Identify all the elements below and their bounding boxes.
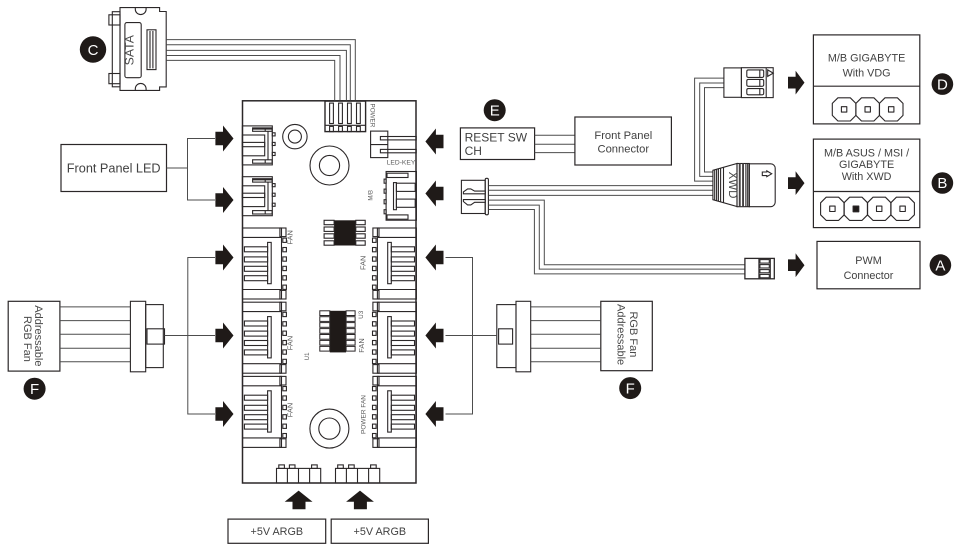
right ARGB plug: [497, 301, 531, 372]
svg-text:SATA: SATA: [123, 34, 137, 65]
svg-text:POWER FAN: POWER FAN: [360, 395, 367, 434]
FAN header L1: [243, 228, 287, 299]
mounting hole big top: [310, 146, 349, 185]
wire SATA to POWER pin3: [166, 50, 346, 101]
M/B header: [384, 172, 416, 221]
svg-text:LED-KEY: LED-KEY: [387, 159, 416, 166]
arrow to FAN L2: [215, 323, 233, 349]
+5V ARGB connector 2: [336, 465, 380, 483]
arrow to VDG box: [788, 71, 805, 95]
label F right: [619, 377, 641, 399]
label D: [932, 73, 954, 95]
XWD connector: [713, 164, 775, 207]
svg-text:XWD: XWD: [726, 172, 738, 199]
wire SATA to POWER pin5: [166, 60, 335, 101]
svg-text:+5V ARGB: +5V ARGB: [354, 526, 407, 538]
FAN header R2: [373, 302, 417, 373]
arrow to J1: [215, 126, 233, 152]
front panel LED header J1: [242, 126, 275, 165]
wires right fan to plug: [531, 307, 601, 362]
svg-text:U1: U1: [304, 352, 311, 361]
XWD pin octagons: [821, 197, 915, 220]
label A: [930, 254, 952, 276]
arrow to J2: [215, 187, 233, 213]
FAN header L3: [243, 376, 287, 447]
wires RESET to FPC: [535, 135, 575, 152]
left ARGB plug: [130, 301, 164, 372]
svg-text:RGB Fan: RGB Fan: [21, 316, 33, 362]
M/B plug: [461, 178, 488, 215]
svg-text:FAN: FAN: [285, 403, 294, 417]
box +5V ARGB 2: [331, 519, 428, 543]
LED-KEY header: [371, 131, 417, 158]
label F left: [24, 378, 46, 400]
hub PCB outline: [243, 101, 417, 483]
svg-text:GIGABYTE: GIGABYTE: [839, 159, 894, 171]
FAN header L2: [243, 302, 287, 373]
svg-text:With XWD: With XWD: [842, 171, 892, 183]
arrow up ARGB 1: [285, 491, 313, 510]
VDG connector: [724, 68, 773, 98]
svg-text:Front Panel LED: Front Panel LED: [67, 162, 161, 176]
bracket front panel LED: [167, 167, 188, 169]
svg-text:Connector: Connector: [844, 270, 894, 282]
svg-text:M/B ASUS / MSI /: M/B ASUS / MSI /: [824, 147, 909, 159]
FAN header R3 (power fan): [373, 376, 417, 447]
arrow to PWM box: [788, 253, 805, 277]
svg-text:Front Panel: Front Panel: [594, 130, 652, 142]
label C: [80, 36, 106, 62]
mounting hole big bottom: [310, 409, 349, 448]
svg-text:U3: U3: [358, 310, 365, 319]
svg-text:Addressable: Addressable: [614, 304, 626, 365]
wire SATA to POWER pin2: [166, 45, 350, 102]
wire SATA to POWER pin1: [166, 40, 355, 102]
arrow to FAN R1: [425, 245, 443, 271]
svg-text:RGB Fan: RGB Fan: [627, 312, 639, 358]
box Front Panel LED: [61, 145, 167, 192]
svg-text:M/B GIGABYTE: M/B GIGABYTE: [828, 52, 905, 64]
left fan bracket: [165, 335, 216, 337]
svg-text:F: F: [30, 381, 39, 398]
right ARGB fan label box: [601, 301, 653, 370]
VDG pin octagons: [832, 98, 903, 121]
label B: [932, 172, 954, 194]
PWM plug: [745, 258, 774, 278]
svg-text:RESET SW: RESET SW: [465, 130, 528, 144]
FAN header R1: [373, 228, 417, 299]
+5V ARGB connector 1: [277, 465, 321, 483]
mounting hole small: [283, 124, 307, 148]
wires left fan to plug: [60, 307, 130, 362]
box Front Panel Connector: [575, 117, 672, 165]
box M/B ASUS MSI GIGABYTE With XWD: [813, 139, 919, 228]
svg-text:E: E: [490, 102, 500, 119]
label E: [484, 99, 506, 121]
svg-text:POWER: POWER: [369, 104, 376, 128]
svg-text:Addressable: Addressable: [32, 305, 44, 366]
SATA connector C: [109, 8, 166, 91]
svg-text:CH: CH: [465, 144, 482, 158]
svg-text:FAN: FAN: [357, 338, 366, 352]
svg-text:A: A: [935, 257, 945, 274]
svg-text:M/B: M/B: [369, 190, 375, 201]
svg-text:FAN: FAN: [285, 230, 294, 244]
arrow to XWD box: [788, 171, 805, 195]
svg-text:With VDG: With VDG: [843, 67, 891, 79]
wires XWD to VDG (3): [695, 78, 724, 181]
POWER connector: [325, 101, 366, 132]
right fan bracket: [446, 335, 497, 337]
IC U1: [320, 311, 355, 353]
svg-text:Connector: Connector: [597, 144, 649, 156]
svg-text:F: F: [626, 380, 635, 397]
svg-text:B: B: [937, 175, 947, 192]
box M/B GIGABYTE With VDG: [813, 35, 919, 124]
front panel LED header J2: [242, 177, 275, 216]
arrow to FAN R2: [425, 323, 443, 349]
box PWM Connector: [817, 241, 920, 288]
arrow to M/B header: [425, 181, 443, 207]
wire SATA to POWER pin4: [166, 56, 340, 102]
arrow to FAN L3: [215, 401, 233, 427]
svg-text:FAN: FAN: [358, 256, 367, 270]
arrow to LED-KEY: [425, 129, 443, 155]
svg-text:C: C: [88, 42, 99, 59]
left ARGB fan label box: [8, 301, 60, 371]
box RESET SW CH: [460, 128, 534, 160]
svg-text:PWM: PWM: [855, 255, 881, 267]
arrow to FAN R3: [425, 401, 443, 427]
chip U2: [324, 220, 365, 245]
svg-text:D: D: [937, 76, 948, 93]
arrow up ARGB 2: [346, 491, 374, 510]
box +5V ARGB 1: [228, 519, 326, 543]
arrow to FAN L1: [215, 245, 233, 271]
svg-text:+5V ARGB: +5V ARGB: [251, 526, 304, 538]
wires plug to PWM (3): [489, 200, 745, 274]
svg-text:FAN: FAN: [285, 336, 294, 350]
wires plug to XWD (3): [489, 186, 714, 196]
